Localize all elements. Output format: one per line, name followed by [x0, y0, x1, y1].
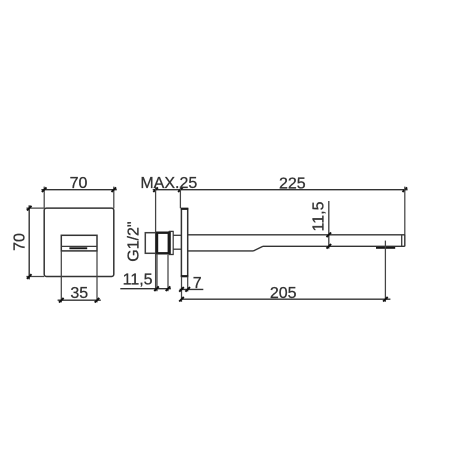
- extension line, square bottom edge extended left: [26, 276, 44, 278]
- extension line, square top edge extended left: [26, 207, 44, 209]
- plate bottom edge (thick): [181, 275, 189, 277]
- spout end (front view): [61, 235, 97, 251]
- top dimension line MAX.25 / 225 (side view): [153, 189, 408, 191]
- tick bottom of left dim 70: [27, 274, 32, 279]
- spout top edge (side view): [188, 234, 405, 236]
- flange right edge: [172, 231, 174, 254]
- svg-text:205: 205: [270, 285, 297, 302]
- svg-text:35: 35: [70, 285, 88, 302]
- tick right of lower 11,5 dim: [166, 286, 171, 291]
- extension line at x404.8 (spout tip up to top dim): [404, 187, 406, 235]
- flange bottom edge: [169, 254, 174, 256]
- extension line at x180.4 (wall face down to plate top): [179, 187, 181, 209]
- wall plate square (front view): [44, 208, 114, 276]
- extension line, spout left edge down to 35 dim: [60, 251, 62, 303]
- extension line at x155.6 (wall max depth / thread start): [155, 187, 157, 292]
- svg-text:225: 225: [279, 175, 306, 192]
- outlet slot (front view): [69, 247, 87, 249]
- tick left of dim 205: [179, 297, 184, 302]
- tick at spout bottom on 11,5 dim: [327, 244, 332, 249]
- extension line, connector body left edge down: [156, 254, 158, 291]
- connector body (thick rect): [157, 233, 169, 254]
- svg-text:70: 70: [70, 175, 88, 192]
- extension line, square right edge up to top dim: [113, 187, 115, 209]
- plate top edge (thick): [181, 208, 189, 210]
- dimension line 11,5 (right, vertical): [328, 201, 330, 249]
- outlet slot (side view): [376, 247, 395, 249]
- neck top line: [173, 234, 181, 236]
- tick left of dim 70: [42, 187, 47, 192]
- svg-text:MAX.25: MAX.25: [140, 175, 197, 192]
- extension line, spout right edge down to 35 dim: [96, 251, 98, 303]
- tick at spout top on 11,5 dim: [327, 233, 332, 238]
- tick left of dim 7: [179, 287, 184, 292]
- dimension line 11,5 (lower left): [120, 288, 171, 290]
- dimension line 35: [58, 299, 101, 301]
- svg-text:G1/2": G1/2": [126, 221, 143, 261]
- tick at x404.8 (225 right): [403, 187, 408, 192]
- tick right of dim 70: [112, 187, 117, 192]
- svg-text:7: 7: [193, 275, 202, 292]
- tick right of dim 35: [95, 298, 100, 303]
- threaded inlet pipe (thin rect): [145, 233, 156, 254]
- spout bottom ramp: [254, 246, 264, 251]
- dimension line 205: [182, 298, 391, 300]
- spout tip right edge: [404, 235, 406, 247]
- tick right of dim 205: [383, 297, 388, 302]
- tick left of lower 11,5 dim: [154, 286, 159, 291]
- tick at x180.4 (MAX.25 right / 225 left): [178, 187, 183, 192]
- spout bottom edge right part: [263, 245, 405, 247]
- flange face (thick left edge): [168, 231, 170, 255]
- extension line, flange left face down: [167, 255, 169, 291]
- spout tip inner line: [401, 235, 403, 247]
- svg-text:70: 70: [12, 233, 29, 251]
- svg-text:11,5: 11,5: [311, 201, 328, 231]
- tick left of dim 35: [59, 298, 64, 303]
- extension line, plate left face down to 205 dim: [181, 277, 183, 302]
- extension line, square left edge up to top dim: [43, 187, 45, 209]
- wall plate (side view): [181, 209, 187, 277]
- tick at x155.6 (MAX.25 left): [153, 187, 158, 192]
- dimension line 70 (top of front view): [41, 189, 116, 191]
- flange top edge: [169, 230, 174, 232]
- extension line, outlet centre down to 205 dim: [384, 241, 386, 302]
- spout front inner edge: [61, 245, 97, 247]
- neck bottom line: [173, 248, 181, 250]
- extension line, plate right face down to 7 dim: [187, 277, 189, 292]
- spout bottom edge left part: [188, 250, 254, 252]
- dimension line 70 (left, vertical): [28, 205, 30, 279]
- dimension line 7: [180, 288, 204, 290]
- tick top of left dim 70: [27, 206, 32, 211]
- tick right of dim 7: [185, 287, 190, 292]
- svg-text:11,5: 11,5: [123, 272, 153, 289]
